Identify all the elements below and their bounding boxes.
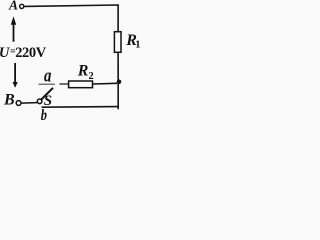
node B — [3, 91, 21, 108]
source U=220V — [0, 45, 47, 61]
node A — [8, 0, 24, 13]
resistor R1 — [114, 32, 140, 53]
wire (a-contact lead to R2, broken scan line) — [39, 83, 69, 85]
svg-text:220V: 220V — [15, 45, 47, 61]
node (junction of R2 branch with right wire) — [117, 80, 122, 85]
resistor R2 — [69, 63, 94, 88]
switch S (pivot + blade) — [37, 88, 52, 109]
svg-text:1: 1 — [135, 40, 140, 51]
svg-text:2: 2 — [89, 71, 94, 82]
svg-text:A: A — [8, 0, 18, 13]
arrow (up, from U toward A) — [11, 16, 16, 41]
arrow (down, from U toward B) — [13, 63, 18, 88]
svg-text:b: b — [41, 107, 47, 121]
wire (R2 right lead to junction) — [93, 82, 118, 85]
wire (top, A to top-right corner, then down to R1) — [24, 5, 118, 32]
wire (B terminal to switch pivot) — [22, 102, 37, 105]
svg-text:a: a — [44, 66, 52, 87]
svg-text:R: R — [77, 63, 89, 80]
wire (R1 bottom down right side to bottom corner) — [117, 52, 119, 109]
svg-text:B: B — [3, 91, 15, 108]
wire (bottom, b-contact line to bottom-right corner) — [42, 106, 119, 109]
